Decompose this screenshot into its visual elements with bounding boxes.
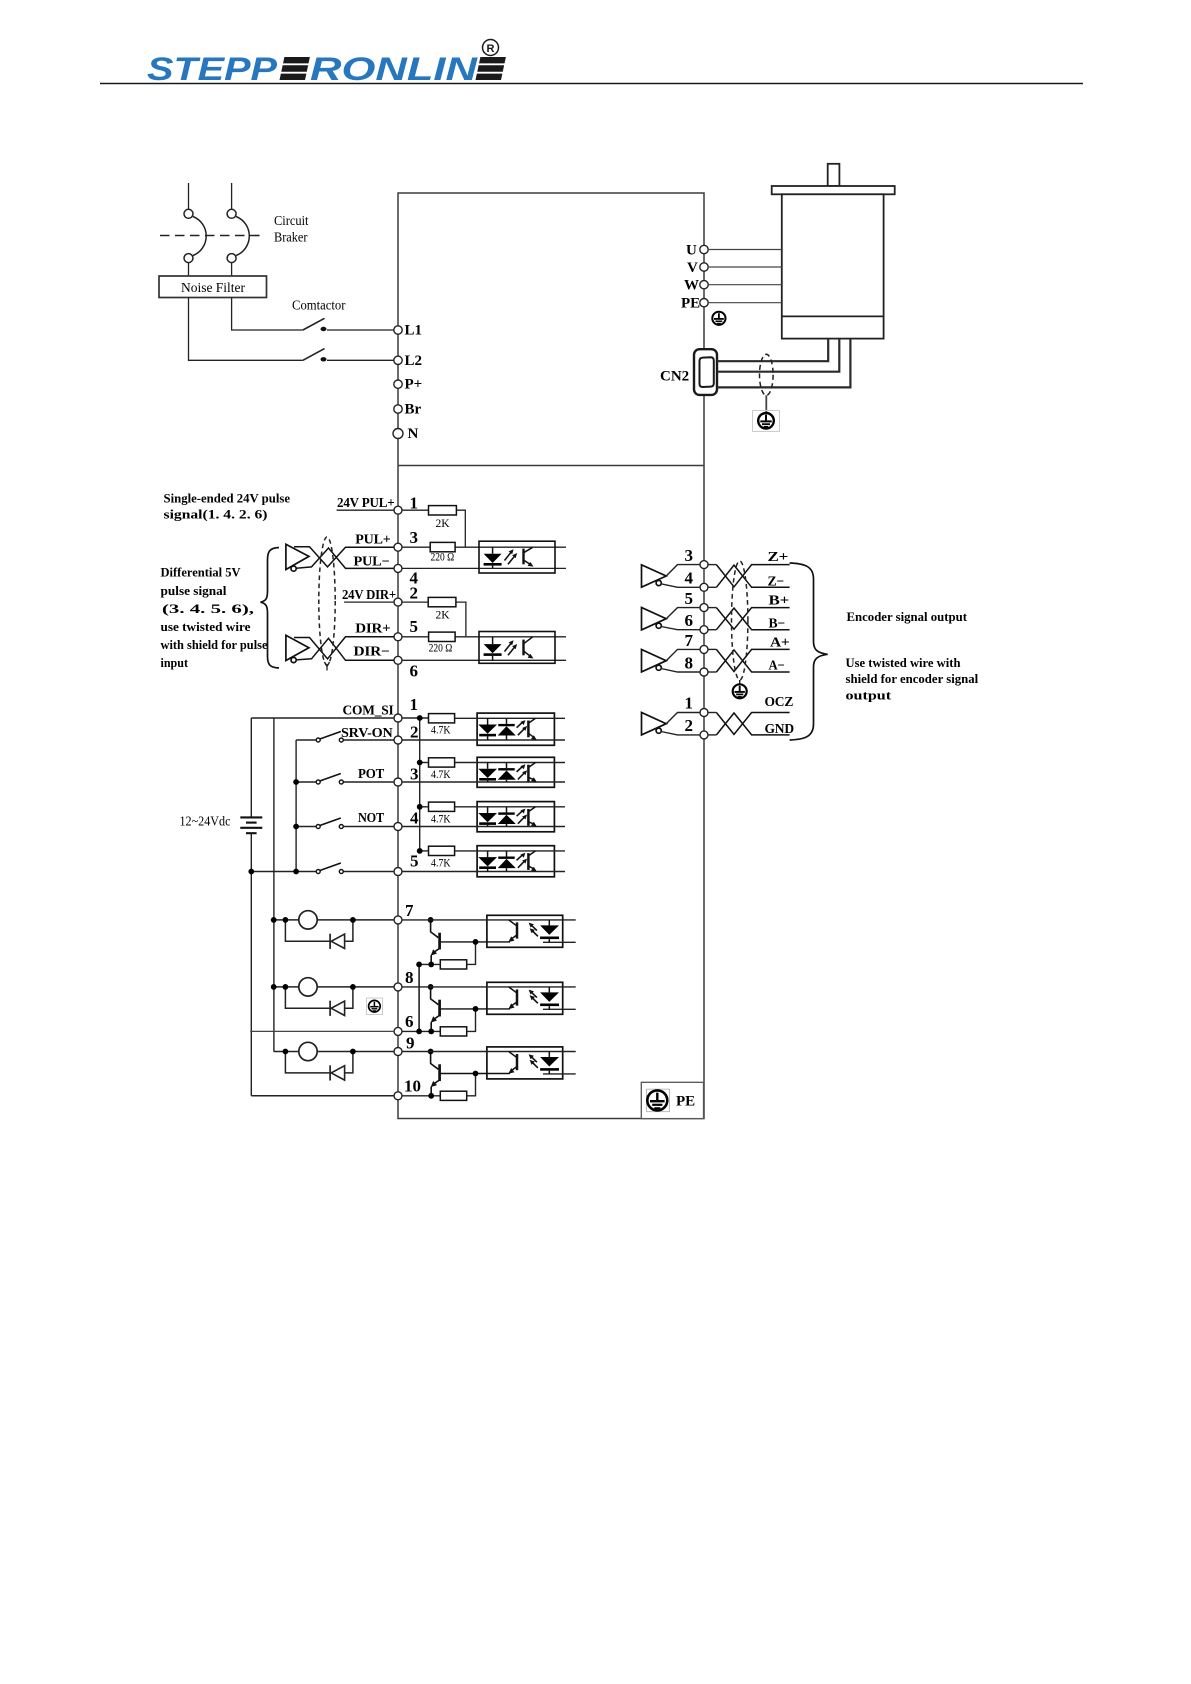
resistor 2K (dir) bbox=[428, 597, 456, 606]
pin6 common wire bbox=[250, 1030, 394, 1032]
svg-text:5: 5 bbox=[410, 617, 419, 636]
svg-text:OCZ: OCZ bbox=[765, 694, 794, 709]
wire contactor to L1 bbox=[327, 329, 394, 331]
svg-text:Encoder signal output: Encoder signal output bbox=[847, 609, 968, 624]
load B junction dots bbox=[271, 984, 277, 990]
svg-text:6: 6 bbox=[405, 1012, 414, 1031]
wire contactor to L2 bbox=[327, 359, 394, 361]
svg-text:7: 7 bbox=[405, 901, 414, 920]
encoder shield ellipse bbox=[732, 561, 748, 680]
chassis ground mark bbox=[367, 998, 383, 1015]
battery cell plates bbox=[240, 817, 262, 833]
base resistor Q1 bbox=[440, 960, 466, 969]
load A junction dots bbox=[271, 917, 277, 923]
breaker pole2 top contact bbox=[227, 209, 236, 218]
svg-text:DIR−: DIR− bbox=[354, 644, 390, 659]
svg-text:RONLIN: RONLIN bbox=[310, 51, 478, 87]
load circuit B bbox=[274, 978, 394, 1016]
wire DIR- row bbox=[402, 659, 566, 661]
protective earth symbol bbox=[647, 1090, 667, 1110]
driver Z output wires bbox=[661, 565, 716, 588]
svg-text:Braker: Braker bbox=[274, 230, 308, 245]
svg-text:8: 8 bbox=[685, 654, 694, 673]
svg-text:Use twisted wire with: Use twisted wire with bbox=[846, 655, 962, 670]
terminal pin Z bottom bbox=[700, 583, 708, 591]
svg-text:V: V bbox=[687, 260, 698, 276]
internal divider line bbox=[398, 465, 704, 467]
contactor switch L1 blade bbox=[303, 318, 325, 330]
motor rear divider bbox=[782, 315, 884, 317]
load C junction dots bbox=[283, 1049, 289, 1055]
terminal PE bbox=[700, 299, 708, 307]
contactor L1 fixed contact bbox=[321, 327, 327, 331]
emission arrows bbox=[505, 640, 518, 655]
cable shield ellipse bbox=[760, 354, 774, 395]
svg-text:2K: 2K bbox=[436, 610, 451, 622]
wire pin2 to 2K bbox=[402, 601, 428, 603]
svg-text:Noise Filter: Noise Filter bbox=[181, 280, 245, 295]
svg-text:P+: P+ bbox=[405, 377, 423, 393]
shield tail Y bbox=[325, 662, 330, 671]
wire 24V DIR+ bbox=[344, 601, 394, 603]
svg-text:24V DIR+: 24V DIR+ bbox=[342, 587, 396, 602]
terminal Br bbox=[394, 405, 402, 413]
wire PUL- row bbox=[402, 567, 566, 569]
motor cable 2 bbox=[717, 339, 839, 372]
svg-text:NOT: NOT bbox=[358, 810, 384, 825]
svg-text:L2: L2 bbox=[405, 353, 423, 369]
twisted pair OCZ bbox=[716, 713, 789, 735]
DININ bbox=[180, 695, 566, 1096]
PE box bottom right bbox=[641, 1082, 703, 1118]
OUTPUTS bbox=[250, 901, 576, 1100]
switch SRV-ON bbox=[316, 732, 343, 743]
resistor 4.7K r3 bbox=[429, 802, 455, 811]
switch bus bbox=[295, 740, 297, 872]
motor shaft bbox=[828, 164, 840, 186]
svg-text:N: N bbox=[408, 426, 419, 442]
load circuit C bbox=[274, 1042, 394, 1080]
breaker pole2 arc bbox=[236, 217, 249, 256]
pin10 internal wire bbox=[402, 1095, 440, 1097]
driver enclosure box bbox=[398, 193, 704, 1119]
wire 24V PUL+ bbox=[337, 509, 394, 511]
svg-text:A−: A− bbox=[769, 657, 785, 672]
terminal 2 bbox=[394, 598, 402, 606]
input terminals bbox=[394, 714, 402, 722]
wire U to motor bbox=[708, 249, 782, 251]
wire pole2 to noise filter bbox=[231, 263, 233, 276]
transistor Q1 bbox=[431, 920, 510, 965]
wire pole1 to noise filter bbox=[188, 263, 190, 276]
internal resistor bus bbox=[402, 718, 429, 851]
svg-text:W: W bbox=[684, 278, 699, 294]
twisted pair A bbox=[716, 649, 789, 672]
svg-text:U: U bbox=[686, 243, 697, 259]
svg-text:COM_SI: COM_SI bbox=[343, 703, 394, 718]
line driver B bbox=[642, 608, 667, 630]
shield earth ground bbox=[733, 684, 747, 698]
junction dots bbox=[293, 779, 299, 785]
driver A output wires bbox=[661, 649, 716, 672]
svg-text:R: R bbox=[487, 43, 495, 55]
load supply line bbox=[273, 718, 275, 1052]
svg-text:3: 3 bbox=[410, 528, 419, 547]
line driver OCZ bbox=[642, 713, 667, 735]
svg-text:PUL−: PUL− bbox=[354, 554, 390, 569]
svg-text:Br: Br bbox=[405, 402, 422, 418]
svg-text:5: 5 bbox=[685, 589, 694, 608]
svg-text:pulse signal: pulse signal bbox=[161, 583, 227, 598]
twisted pair DIR bbox=[294, 637, 394, 661]
svg-text:with shield for pulse: with shield for pulse bbox=[161, 637, 268, 652]
wire supply pole 1 bbox=[188, 183, 190, 209]
pin6 internal wire bbox=[402, 1030, 440, 1032]
wire V to motor bbox=[708, 266, 782, 268]
base resistor Q2 bbox=[440, 1027, 466, 1036]
wire noise filter to L2 contactor bbox=[189, 298, 303, 361]
motor body bbox=[782, 194, 884, 338]
terminal pin B bottom bbox=[700, 626, 708, 634]
wire W to motor bbox=[708, 284, 782, 286]
wire 2K to junction bbox=[456, 510, 465, 547]
terminal 3 bbox=[394, 543, 402, 551]
twisted pair B bbox=[716, 608, 789, 630]
breaker pole1 arc bbox=[193, 217, 206, 256]
svg-text:Single-ended 24V pulse: Single-ended 24V pulse bbox=[164, 491, 291, 506]
svg-text:1: 1 bbox=[685, 694, 694, 713]
svg-text:use twisted wire: use twisted wire bbox=[161, 619, 251, 634]
svg-text:9: 9 bbox=[406, 1034, 415, 1053]
svg-text:2: 2 bbox=[410, 723, 419, 742]
svg-text:6: 6 bbox=[685, 611, 694, 630]
svg-text:2: 2 bbox=[685, 716, 694, 735]
svg-text:8: 8 bbox=[405, 968, 414, 987]
collector tap dot Q1 bbox=[428, 917, 434, 923]
twisted pair PUL bbox=[294, 547, 394, 569]
svg-text:GND: GND bbox=[765, 721, 795, 736]
breaker trip dashed line bbox=[160, 235, 264, 237]
emission arrows bbox=[505, 549, 518, 564]
resistor 220 ohm (pulse) bbox=[430, 542, 455, 551]
ENCODER bbox=[642, 546, 979, 740]
svg-text:DIR+: DIR+ bbox=[355, 621, 390, 636]
wire pin1 to 2K bbox=[402, 509, 429, 511]
encoder brace bbox=[790, 563, 828, 740]
svg-text:24V PUL+: 24V PUL+ bbox=[337, 495, 395, 510]
svg-text:4.7K: 4.7K bbox=[431, 813, 451, 825]
emitter junction dot Q3 bbox=[428, 1093, 434, 1099]
resistor 2K (pulse) bbox=[429, 506, 457, 515]
opto output 3 bbox=[402, 1047, 576, 1079]
collector tap dot Q3 bbox=[428, 1049, 434, 1055]
led bbox=[492, 547, 494, 554]
svg-text:220 Ω: 220 Ω bbox=[431, 552, 455, 564]
opto output 2 bbox=[402, 982, 576, 1014]
led bbox=[492, 637, 494, 644]
wire PUL+ row bbox=[402, 546, 430, 548]
terminal pin A bottom bbox=[700, 668, 708, 676]
resistor 4.7K r2 bbox=[429, 758, 455, 767]
MOTOR bbox=[660, 164, 895, 432]
battery feed line bbox=[250, 718, 252, 817]
contactor switch L2 blade bbox=[303, 349, 325, 361]
noise filter box bbox=[159, 276, 267, 298]
svg-text:4: 4 bbox=[685, 569, 694, 588]
terminal 5 bbox=[394, 633, 402, 641]
svg-text:Circuit: Circuit bbox=[274, 213, 309, 228]
switch POT bbox=[316, 774, 343, 785]
svg-text:4.7K: 4.7K bbox=[431, 769, 451, 781]
wire DIR+ row bbox=[402, 636, 429, 638]
POT row bbox=[296, 781, 318, 783]
svg-text:220 Ω: 220 Ω bbox=[429, 643, 453, 655]
svg-text:POT: POT bbox=[358, 766, 384, 781]
terminal L2 bbox=[394, 356, 402, 364]
transistor Q2 bbox=[431, 987, 510, 1032]
shield drain wire bbox=[765, 395, 767, 412]
NOT row bbox=[296, 826, 318, 828]
svg-text:PE: PE bbox=[681, 296, 700, 312]
terminal pin Z top bbox=[700, 561, 708, 569]
svg-text:B+: B+ bbox=[769, 593, 790, 608]
battery to bottom rail and down to pin10 row bbox=[250, 833, 252, 1096]
shield earth ground bbox=[753, 411, 780, 432]
svg-text:3: 3 bbox=[685, 546, 694, 565]
CN2 connector bbox=[694, 349, 717, 395]
svg-text:SRV-ON: SRV-ON bbox=[341, 725, 393, 740]
svg-text:1: 1 bbox=[410, 695, 419, 714]
breaker pole1 top contact bbox=[184, 209, 193, 218]
terminal pin OCZ bottom bbox=[700, 731, 708, 739]
line driver PUL bbox=[286, 544, 309, 571]
wire supply pole 2 bbox=[231, 183, 233, 209]
resistor 4.7K r1 bbox=[429, 714, 455, 723]
opto input 1 bbox=[402, 713, 565, 745]
svg-text:1: 1 bbox=[410, 493, 419, 512]
breaker pole2 bottom contact bbox=[227, 254, 236, 263]
wire 2K2 to junction bbox=[456, 602, 466, 637]
terminal U bbox=[700, 245, 708, 253]
svg-text:PUL+: PUL+ bbox=[355, 532, 390, 547]
svg-text:Z+: Z+ bbox=[768, 549, 789, 564]
brace differential bbox=[261, 548, 280, 669]
collector tap dot Q2 bbox=[428, 984, 434, 990]
terminal 1 bbox=[394, 506, 402, 514]
svg-text:shield for encoder signal: shield for encoder signal bbox=[846, 671, 979, 686]
line driver A bbox=[642, 650, 667, 672]
wire noise filter to L1 contactor bbox=[232, 298, 303, 331]
terminal N bbox=[393, 429, 403, 439]
twisted pair Z bbox=[716, 565, 789, 588]
contactor L2 fixed contact bbox=[321, 357, 327, 361]
svg-text:L1: L1 bbox=[405, 323, 423, 339]
svg-text:output: output bbox=[846, 687, 892, 702]
earth symbol below PE bbox=[712, 312, 725, 325]
svg-text:Comtactor: Comtactor bbox=[292, 298, 346, 313]
breaker pole1 bottom contact bbox=[184, 254, 193, 263]
BREAKER bbox=[159, 183, 394, 361]
terminal 6 bbox=[394, 656, 402, 664]
left power terminals bbox=[393, 323, 422, 443]
wire COM_SI bbox=[251, 717, 394, 719]
transistor Q3 bbox=[431, 1052, 510, 1096]
LOGO bbox=[147, 40, 506, 88]
svg-text:7: 7 bbox=[685, 631, 694, 650]
svg-text:PE: PE bbox=[676, 1094, 695, 1110]
motor cable 1 bbox=[717, 339, 828, 362]
MAINBOX bbox=[398, 193, 704, 1119]
base resistor Q3 bbox=[440, 1091, 466, 1100]
svg-text:4: 4 bbox=[410, 809, 419, 828]
motor flange bbox=[772, 186, 895, 194]
opto input 2 bbox=[402, 757, 565, 787]
svg-text:Z−: Z− bbox=[768, 574, 785, 589]
phototransistor bbox=[522, 640, 524, 656]
svg-text:STEPP: STEPP bbox=[147, 51, 278, 87]
terminal L1 bbox=[394, 326, 402, 334]
bottom rail bbox=[251, 871, 318, 873]
line driver DIR bbox=[286, 635, 309, 662]
load circuit A bbox=[274, 911, 394, 949]
terminal pin B top bbox=[700, 604, 708, 612]
svg-text:5: 5 bbox=[410, 852, 419, 871]
svg-text:input: input bbox=[161, 655, 189, 670]
optocoupler DIR bbox=[479, 632, 555, 664]
emitter junction dot Q1 bbox=[428, 962, 434, 968]
PULSE bbox=[161, 491, 567, 681]
svg-text:4.7K: 4.7K bbox=[431, 858, 451, 870]
pin10 wire bbox=[251, 1095, 394, 1097]
svg-text:4.7K: 4.7K bbox=[431, 725, 451, 737]
terminal W bbox=[700, 281, 708, 289]
registered mark bbox=[483, 40, 499, 56]
terminal pin A top bbox=[700, 645, 708, 653]
svg-text:2K: 2K bbox=[436, 518, 451, 530]
driver OCZ output wires bbox=[661, 713, 716, 735]
wire PE to motor bbox=[708, 302, 782, 304]
phototransistor bbox=[522, 549, 524, 565]
switch pin5 bbox=[316, 863, 343, 874]
line driver Z bbox=[642, 565, 667, 587]
optocoupler PUL bbox=[479, 541, 555, 573]
SRV-ON row bbox=[296, 739, 318, 741]
emitter junction dot Q2 bbox=[428, 1029, 434, 1035]
svg-text:signal(1. 4. 2. 6): signal(1. 4. 2. 6) bbox=[164, 507, 268, 522]
terminal V bbox=[700, 263, 708, 271]
motor cable 3 bbox=[717, 339, 850, 388]
svg-text:A+: A+ bbox=[770, 635, 790, 650]
svg-text:CN2: CN2 bbox=[660, 369, 689, 385]
emitter bus bbox=[418, 964, 420, 1031]
svg-text:10: 10 bbox=[404, 1077, 421, 1096]
resistor 4.7K r4 bbox=[429, 846, 455, 855]
header rule bbox=[100, 83, 1083, 85]
pulse shield ellipse bbox=[319, 537, 335, 665]
driver B output wires bbox=[661, 608, 716, 630]
opto input 4 bbox=[402, 846, 565, 877]
resistor 220 ohm (dir) bbox=[429, 632, 456, 641]
opto output 1 bbox=[402, 915, 576, 947]
pin5 row bbox=[343, 871, 394, 873]
shield drain bbox=[739, 680, 741, 685]
svg-text:(3. 4. 5. 6),: (3. 4. 5. 6), bbox=[162, 601, 254, 616]
svg-text:12~24Vdc: 12~24Vdc bbox=[180, 814, 231, 829]
svg-text:3: 3 bbox=[410, 765, 419, 784]
opto input 3 bbox=[402, 802, 565, 832]
terminal pin OCZ top bbox=[700, 709, 708, 717]
logo wordmark STEPPERONLINE bbox=[147, 51, 506, 87]
terminal P+ bbox=[394, 380, 402, 388]
svg-text:6: 6 bbox=[410, 662, 419, 681]
emitter wire Q1 bbox=[419, 963, 440, 965]
svg-text:2: 2 bbox=[410, 584, 419, 603]
svg-text:B−: B− bbox=[769, 616, 786, 631]
svg-text:Differential 5V: Differential 5V bbox=[161, 564, 242, 579]
output terminals bbox=[394, 916, 402, 924]
terminal 4 bbox=[394, 564, 402, 572]
switch NOT bbox=[316, 818, 343, 829]
